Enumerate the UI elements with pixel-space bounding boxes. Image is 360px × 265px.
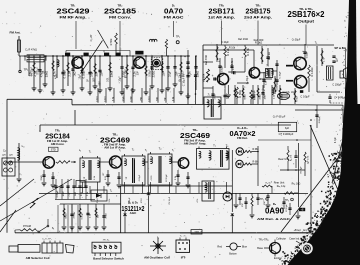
svg-text:0.02μF: 0.02μF bbox=[306, 51, 308, 58]
svg-text:0.05μF: 0.05μF bbox=[221, 65, 223, 72]
svg-text:Cᵂ F470μF: Cᵂ F470μF bbox=[334, 97, 346, 100]
svg-text:15P: 15P bbox=[100, 71, 104, 76]
svg-text:AM Oscillator Coil: AM Oscillator Coil bbox=[144, 255, 170, 259]
svg-text:0.05μF: 0.05μF bbox=[81, 212, 83, 220]
svg-text:0.05μF: 0.05μF bbox=[82, 69, 86, 78]
svg-text:R 56Ω: R 56Ω bbox=[238, 90, 242, 97]
svg-text:L₆: L₆ bbox=[79, 150, 81, 152]
svg-text:T₆: T₆ bbox=[226, 144, 229, 148]
svg-text:Blue: Blue bbox=[242, 245, 248, 248]
svg-text:Cᵂ: Cᵂ bbox=[9, 154, 13, 157]
svg-text:2SC185: 2SC185 bbox=[104, 6, 136, 15]
svg-text:+: + bbox=[302, 49, 304, 53]
svg-text:AM Conv.: AM Conv. bbox=[51, 142, 65, 146]
svg-text:5P: 5P bbox=[43, 70, 45, 73]
svg-text:50P: 50P bbox=[93, 77, 95, 82]
svg-text:AM 2nd IF Amp.: AM 2nd IF Amp. bbox=[184, 141, 207, 145]
svg-text:Emitter: Emitter bbox=[274, 257, 282, 260]
svg-text:RₙK 2342: RₙK 2342 bbox=[238, 39, 249, 41]
svg-text:0.05μF: 0.05μF bbox=[57, 190, 59, 198]
svg-text:Collector: Collector bbox=[276, 237, 286, 240]
svg-text:Band Selector Switch: Band Selector Switch bbox=[93, 256, 124, 260]
svg-text:AM Selector Coil: AM Selector Coil bbox=[26, 256, 50, 260]
svg-text:2.2k: 2.2k bbox=[68, 71, 72, 77]
svg-text:2SB175: 2SB175 bbox=[246, 6, 271, 15]
svg-text:50P: 50P bbox=[97, 214, 99, 218]
svg-text:TP₂: TP₂ bbox=[176, 35, 180, 39]
svg-text:T₇: T₇ bbox=[213, 144, 216, 148]
svg-text:C 100μF: C 100μF bbox=[332, 84, 342, 87]
svg-text:T₅: T₅ bbox=[172, 150, 174, 152]
svg-text:R 50k: R 50k bbox=[109, 38, 113, 45]
svg-text:2SB176×2: 2SB176×2 bbox=[288, 10, 326, 19]
svg-text:C 0.5μF: C 0.5μF bbox=[300, 95, 310, 99]
svg-text:Cᵂ: Cᵂ bbox=[2, 154, 6, 157]
svg-text:0.001: 0.001 bbox=[254, 93, 256, 99]
svg-text:4.7μF: 4.7μF bbox=[335, 136, 337, 143]
svg-text:10μF: 10μF bbox=[168, 71, 172, 78]
svg-text:FM Conv.: FM Conv. bbox=[109, 16, 131, 20]
svg-text:T₂: T₂ bbox=[145, 150, 147, 152]
svg-text:47kΩ: 47kΩ bbox=[296, 96, 298, 101]
svg-text:STD: STD bbox=[51, 149, 56, 152]
svg-text:R 4.7k: R 4.7k bbox=[232, 60, 234, 67]
svg-text:Rₙₖ 1kΩ: Rₙₖ 1kΩ bbox=[292, 183, 301, 186]
svg-text:50P: 50P bbox=[99, 81, 101, 86]
svg-text:15P: 15P bbox=[175, 71, 179, 76]
svg-text:VR 10k: VR 10k bbox=[202, 73, 206, 82]
svg-text:FM AGC: FM AGC bbox=[164, 16, 185, 20]
svg-text:Output: Output bbox=[298, 20, 315, 24]
svg-text:C 10μF: C 10μF bbox=[221, 42, 229, 44]
svg-text:T₄: T₄ bbox=[110, 190, 112, 193]
svg-text:T₉: T₉ bbox=[315, 42, 317, 45]
svg-text:Comb. Unit: Comb. Unit bbox=[283, 90, 296, 94]
svg-text:6V 10μF: 6V 10μF bbox=[166, 173, 168, 182]
svg-text:+: + bbox=[265, 73, 267, 77]
svg-text:Rₙ 47k: Rₙ 47k bbox=[291, 154, 293, 161]
svg-text:Red: Red bbox=[217, 245, 222, 248]
svg-text:T₆ ↓ T₇: T₆ ↓ T₇ bbox=[180, 234, 187, 237]
svg-text:TR₁~TR₈: TR₁~TR₈ bbox=[258, 239, 268, 242]
svg-text:T₂: T₂ bbox=[266, 65, 268, 68]
svg-text:2SC429: 2SC429 bbox=[57, 6, 90, 15]
svg-text:6V 10μF: 6V 10μF bbox=[125, 69, 127, 78]
svg-text:C₁ R 47kΩ: C₁ R 47kΩ bbox=[25, 49, 37, 52]
svg-text:±28: ±28 bbox=[194, 230, 199, 234]
svg-text:33kΩ: 33kΩ bbox=[110, 71, 114, 78]
svg-text:T₁: T₁ bbox=[89, 150, 92, 154]
svg-text:2.2k: 2.2k bbox=[133, 71, 137, 77]
svg-text:T₂: T₂ bbox=[132, 148, 135, 152]
svg-text:1μF 4.7k: 1μF 4.7k bbox=[308, 155, 310, 164]
svg-text:T₅: T₅ bbox=[208, 94, 210, 97]
svg-text:RₙK 000: RₙK 000 bbox=[254, 38, 264, 42]
svg-text:1kΩ: 1kΩ bbox=[75, 192, 77, 196]
svg-text:+B: +B bbox=[301, 209, 304, 212]
svg-text:T₁: T₁ bbox=[119, 150, 121, 152]
svg-text:5P: 5P bbox=[87, 79, 89, 82]
svg-text:R 4.7k: R 4.7k bbox=[246, 48, 250, 56]
svg-text:3.3k: 3.3k bbox=[109, 199, 111, 203]
svg-text:2nd AF Amp.: 2nd AF Amp. bbox=[244, 16, 272, 20]
svg-text:10μF: 10μF bbox=[119, 76, 121, 82]
svg-text:4.7k: 4.7k bbox=[197, 199, 199, 203]
svg-text:6V 10μF: 6V 10μF bbox=[169, 196, 171, 204]
svg-text:0.001: 0.001 bbox=[276, 85, 278, 91]
svg-text:0.02μF: 0.02μF bbox=[149, 69, 151, 77]
svg-text:C 10μF 6V: C 10μF 6V bbox=[182, 74, 186, 87]
svg-text:Base: Base bbox=[257, 247, 263, 250]
svg-text:Bottom: Bottom bbox=[229, 252, 237, 255]
svg-text:+: + bbox=[212, 74, 214, 78]
svg-text:TP₄: TP₄ bbox=[260, 198, 264, 201]
svg-text:L₅: L₅ bbox=[157, 236, 159, 239]
svg-text:AGC: AGC bbox=[130, 211, 138, 215]
svg-text:33kΩ: 33kΩ bbox=[41, 175, 43, 181]
svg-text:FM Det.: FM Det. bbox=[237, 136, 248, 140]
svg-text:15P: 15P bbox=[264, 201, 266, 205]
svg-text:0.02μF: 0.02μF bbox=[139, 174, 141, 181]
svg-text:Case Ind.: Case Ind. bbox=[289, 238, 300, 241]
svg-text:C₂ 2P: C₂ 2P bbox=[89, 34, 93, 41]
svg-text:C 30μF: C 30μF bbox=[280, 71, 282, 79]
svg-text:6V 10μF: 6V 10μF bbox=[179, 72, 181, 81]
svg-text:3μF: 3μF bbox=[285, 127, 290, 130]
svg-text:Cₐᵣ: Cₐᵣ bbox=[3, 150, 7, 153]
svg-text:+B led: +B led bbox=[294, 229, 302, 232]
svg-text:100P: 100P bbox=[264, 94, 266, 100]
svg-text:AM 1st IF Amp.: AM 1st IF Amp. bbox=[104, 146, 126, 150]
svg-text:30P: 30P bbox=[95, 71, 99, 76]
svg-text:0.02μF: 0.02μF bbox=[129, 197, 131, 204]
svg-text:100P: 100P bbox=[63, 191, 65, 197]
svg-text:1μF: 1μF bbox=[335, 57, 339, 62]
svg-text:S₁: S₁ bbox=[52, 227, 55, 230]
svg-text:SP w 8Ω: SP w 8Ω bbox=[334, 46, 346, 50]
svg-text:Rₙₖ 14μ: Rₙₖ 14μ bbox=[277, 185, 286, 188]
svg-text:6V 10μF: 6V 10μF bbox=[286, 203, 288, 212]
svg-text:47kΩ: 47kΩ bbox=[214, 94, 216, 99]
svg-text:68kΩ: 68kΩ bbox=[244, 94, 246, 100]
svg-text:0A90: 0A90 bbox=[265, 206, 284, 216]
svg-text:30P: 30P bbox=[137, 71, 139, 76]
svg-text:T₃: T₃ bbox=[159, 147, 162, 151]
svg-text:470Ω: 470Ω bbox=[141, 198, 143, 203]
svg-text:0.02μF: 0.02μF bbox=[37, 67, 39, 75]
svg-text:15P: 15P bbox=[162, 71, 166, 76]
svg-text:TP₁: TP₁ bbox=[24, 68, 29, 72]
svg-text:470Ω: 470Ω bbox=[151, 175, 153, 180]
svg-text:R 120Ω: R 120Ω bbox=[310, 68, 314, 77]
svg-text:R 10k: R 10k bbox=[229, 47, 236, 50]
svg-text:0A70: 0A70 bbox=[164, 6, 183, 15]
svg-text:0.01: 0.01 bbox=[107, 77, 109, 82]
svg-text:FM RF Amp.: FM RF Amp. bbox=[60, 16, 87, 20]
svg-text:RₙK 2Ω: RₙK 2Ω bbox=[269, 52, 271, 60]
svg-text:2SB171: 2SB171 bbox=[209, 6, 235, 15]
svg-text:47kΩ: 47kΩ bbox=[105, 213, 107, 219]
svg-text:Cₙ 50μF: Cₙ 50μF bbox=[292, 40, 301, 42]
svg-text:1kΩ: 1kΩ bbox=[73, 72, 77, 77]
svg-text:TP₅ S₂: TP₅ S₂ bbox=[103, 239, 110, 241]
svg-text:Fᵂ/AM: Fᵂ/AM bbox=[23, 224, 31, 228]
svg-text:FM Ant.: FM Ant. bbox=[10, 31, 21, 35]
svg-text:33kΩ: 33kΩ bbox=[259, 94, 261, 100]
svg-text:Cₙ F 68 μF: Cₙ F 68 μF bbox=[273, 115, 286, 119]
svg-text:10μF: 10μF bbox=[79, 74, 81, 80]
svg-text:Cₙ 30μF: Cₙ 30μF bbox=[247, 75, 249, 84]
svg-text:220Ω: 220Ω bbox=[152, 71, 156, 78]
svg-text:68kΩ: 68kΩ bbox=[65, 213, 67, 219]
svg-text:AM Det. & AGC: AM Det. & AGC bbox=[257, 217, 291, 221]
svg-text:33kΩ: 33kΩ bbox=[281, 94, 283, 100]
svg-text:+: + bbox=[184, 55, 186, 59]
svg-text:15P: 15P bbox=[242, 203, 244, 207]
svg-text:10μF: 10μF bbox=[90, 71, 94, 78]
svg-text:+: + bbox=[218, 59, 220, 63]
svg-text:33kΩ: 33kΩ bbox=[97, 198, 99, 203]
svg-text:30P: 30P bbox=[226, 95, 228, 99]
svg-text:RₙK 3342: RₙK 3342 bbox=[206, 54, 208, 65]
svg-text:0.05μF: 0.05μF bbox=[63, 69, 67, 78]
